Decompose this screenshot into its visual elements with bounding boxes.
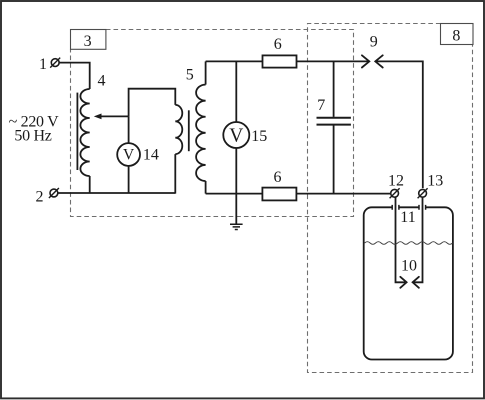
svg-text:8: 8 [452, 28, 460, 45]
svg-text:14: 14 [143, 147, 159, 164]
svg-text:6: 6 [274, 169, 282, 186]
svg-text:15: 15 [251, 128, 267, 145]
svg-text:12: 12 [388, 172, 404, 189]
svg-text:V: V [123, 147, 135, 164]
svg-text:3: 3 [84, 33, 92, 50]
svg-text:9: 9 [370, 33, 378, 50]
svg-text:2: 2 [36, 188, 44, 205]
svg-text:V: V [229, 126, 243, 147]
svg-text:13: 13 [427, 172, 443, 189]
svg-text:50 Hz: 50 Hz [14, 127, 51, 144]
svg-text:4: 4 [98, 72, 106, 89]
svg-text:6: 6 [274, 36, 282, 53]
svg-text:11: 11 [400, 209, 415, 226]
svg-text:7: 7 [317, 97, 325, 114]
svg-text:10: 10 [401, 258, 417, 275]
svg-text:5: 5 [186, 66, 194, 83]
svg-text:1: 1 [39, 56, 47, 73]
